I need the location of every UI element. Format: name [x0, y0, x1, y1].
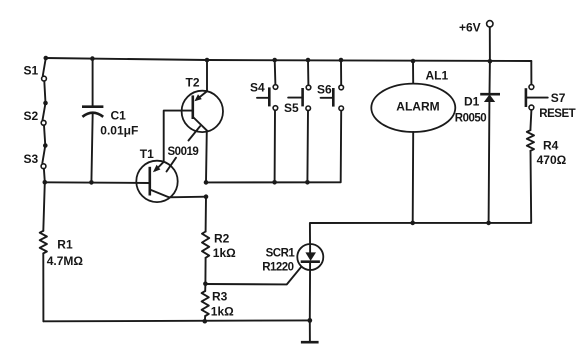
wire: S4 bottom	[274, 110, 276, 182]
wire: S2 to S3	[44, 125, 45, 145]
transistor T1 base bar	[149, 167, 152, 196]
resistor R4	[527, 130, 534, 151]
node: T2 top rail junction	[205, 58, 210, 63]
svg-text:470Ω: 470Ω	[537, 153, 567, 167]
wire: left vertical to R1	[43, 182, 45, 231]
wire: S7 to R4	[530, 110, 531, 130]
svg-text:T1: T1	[140, 147, 154, 161]
svg-text:S2: S2	[24, 109, 39, 123]
svg-text:S4: S4	[250, 80, 265, 94]
switch S1 blade	[43, 58, 46, 76]
capacitor C1 curved plate	[82, 113, 103, 117]
diode D1 cathode bar	[480, 93, 500, 96]
resistor R1	[40, 231, 47, 254]
svg-text:AL1: AL1	[426, 69, 449, 83]
wire: gate wire from R2/R3 junction	[205, 265, 303, 285]
switch S5 bar	[301, 88, 304, 106]
transistor T2 emitter lead	[197, 91, 207, 99]
switch S6 bar	[332, 88, 335, 107]
svg-text:S3: S3	[24, 152, 39, 166]
terminal +6V	[487, 21, 493, 27]
transistor T2 emitter arrow	[194, 94, 201, 101]
leader: S0019 to T2	[189, 126, 201, 140]
capacitor C1 top plate	[82, 105, 103, 108]
wire: alarm top	[412, 61, 414, 84]
node: +6V rail junction	[488, 59, 493, 64]
node: S5 bottom	[305, 180, 310, 185]
svg-text:C1: C1	[111, 109, 127, 123]
wire: R2 bottom	[204, 258, 206, 284]
switch S6 stem	[321, 97, 334, 99]
wire: SCR cathode to ground rail	[309, 262, 311, 321]
svg-text:R1220: R1220	[262, 262, 293, 274]
wire: S6 top	[340, 60, 342, 85]
switch S3 contact	[41, 164, 46, 169]
wire: top +V rail	[45, 58, 531, 61]
wire: bottom ground rail	[43, 319, 309, 322]
wire: S3 to mid rail	[43, 169, 46, 182]
wire: T2 base to T1	[164, 111, 193, 162]
transistor T2 base bar	[192, 95, 195, 119]
switch S1 contact	[42, 76, 47, 81]
node: S6 top rail	[339, 58, 344, 63]
transistor T2 circle	[182, 91, 223, 132]
node: S3 top	[43, 143, 48, 148]
wire: D1 top	[489, 61, 491, 94]
capacitor C1 top wire	[92, 59, 94, 107]
wire: R1 to bottom rail	[42, 253, 44, 321]
node: ground junction	[307, 318, 312, 323]
svg-text:+6V: +6V	[459, 21, 481, 35]
leader: S0019 to T1	[167, 158, 177, 172]
svg-text:R0050: R0050	[455, 112, 486, 124]
node: S4 top rail	[272, 58, 277, 63]
switch S7 stem	[526, 97, 548, 99]
svg-text:0.01μF: 0.01μF	[100, 124, 138, 138]
wire: T2 collector down	[205, 130, 208, 182]
wire: S1 to S2	[44, 81, 45, 103]
svg-text:S5: S5	[284, 101, 299, 115]
node: T2 collector mid-rail junction	[204, 180, 209, 185]
node: S1 top on rail	[44, 56, 49, 61]
svg-text:RESET: RESET	[539, 108, 575, 120]
thyristor SCR1 triangle	[305, 252, 316, 261]
switch S2 blade	[43, 103, 46, 120]
transistor T1 collector lead	[150, 190, 169, 198]
wire: alarm bottom	[412, 132, 415, 223]
wire: T2 emitter to top rail	[206, 60, 208, 91]
wire: ground stub	[309, 320, 311, 341]
wire: SCR anode rail	[310, 151, 531, 253]
wire: mid rail right section	[206, 111, 341, 183]
svg-text:D1: D1	[464, 94, 480, 108]
node: C1 top	[90, 56, 95, 61]
wire: D1 bottom	[488, 102, 491, 223]
wire: S7 drop from top rail	[530, 61, 532, 85]
switch S6 contacts	[339, 85, 344, 90]
wire: R3 to bottom rail	[204, 316, 206, 321]
switch S4 contacts	[273, 85, 278, 90]
switch S7 contacts	[529, 85, 534, 90]
svg-text:S1: S1	[24, 64, 39, 78]
svg-text:ALARM: ALARM	[396, 100, 439, 114]
node: alarm top rail junction	[411, 59, 416, 64]
svg-text:R1: R1	[57, 238, 73, 252]
svg-text:R3: R3	[212, 290, 228, 304]
svg-text:T2: T2	[186, 76, 200, 90]
resistor R2	[202, 232, 209, 258]
thyristor SCR1 circle	[297, 244, 323, 270]
alarm AL1 ellipse	[371, 84, 455, 132]
node: alarm bottom junction	[410, 221, 415, 226]
wire: mid rail to T1 base	[45, 181, 150, 184]
node: C1 bottom	[89, 180, 94, 185]
svg-text:SCR1: SCR1	[266, 248, 296, 260]
switch S4 stem	[257, 97, 269, 99]
svg-text:S7: S7	[551, 91, 566, 105]
thyristor SCR1 cathode bar	[301, 260, 320, 263]
transistor T1 circle	[136, 161, 177, 202]
ground bar	[301, 341, 319, 344]
node: S4 bottom	[272, 180, 277, 185]
transistor T2 collector lead	[193, 117, 207, 130]
switch S5 stem	[288, 97, 302, 99]
switch S7 bar	[525, 88, 528, 107]
svg-text:R4: R4	[543, 139, 559, 153]
node: S5 top rail	[306, 58, 311, 63]
wire: +6V to top rail	[489, 27, 491, 61]
switch S2 contact	[41, 120, 46, 125]
svg-text:S6: S6	[317, 83, 332, 97]
switch S5 contacts	[306, 85, 311, 90]
wire: T1 collector to R2 node	[169, 196, 206, 199]
transistor T1 emitter arrow	[153, 165, 161, 173]
switch S3 blade	[42, 146, 45, 164]
wire: R2 top	[205, 197, 207, 232]
svg-text:R2: R2	[214, 232, 230, 246]
svg-text:1kΩ: 1kΩ	[213, 246, 236, 260]
svg-text:S0019: S0019	[168, 146, 199, 158]
node: S2 top	[43, 101, 48, 106]
node: left mid-rail corner	[43, 180, 48, 185]
svg-text:4.7MΩ: 4.7MΩ	[47, 254, 84, 268]
node: T1 collector junction	[204, 194, 209, 199]
wire: S4 top	[274, 60, 277, 85]
wire: S5 top	[307, 60, 309, 85]
transistor T1 emitter lead	[155, 162, 164, 171]
wire: R3 top	[204, 284, 206, 291]
thyristor SCR1 anode stub	[309, 244, 311, 253]
svg-text:1kΩ: 1kΩ	[211, 305, 234, 319]
node: R3 bottom	[203, 319, 208, 324]
resistor R3	[202, 291, 209, 316]
wire: S5 bottom	[306, 111, 309, 183]
diode D1 triangle	[484, 94, 495, 102]
node: D1 bottom junction	[486, 221, 491, 226]
wire: C1 bottom to mid rail	[91, 113, 92, 183]
switch S4 bar	[268, 87, 271, 106]
node: R2/R3 junction	[203, 281, 208, 286]
